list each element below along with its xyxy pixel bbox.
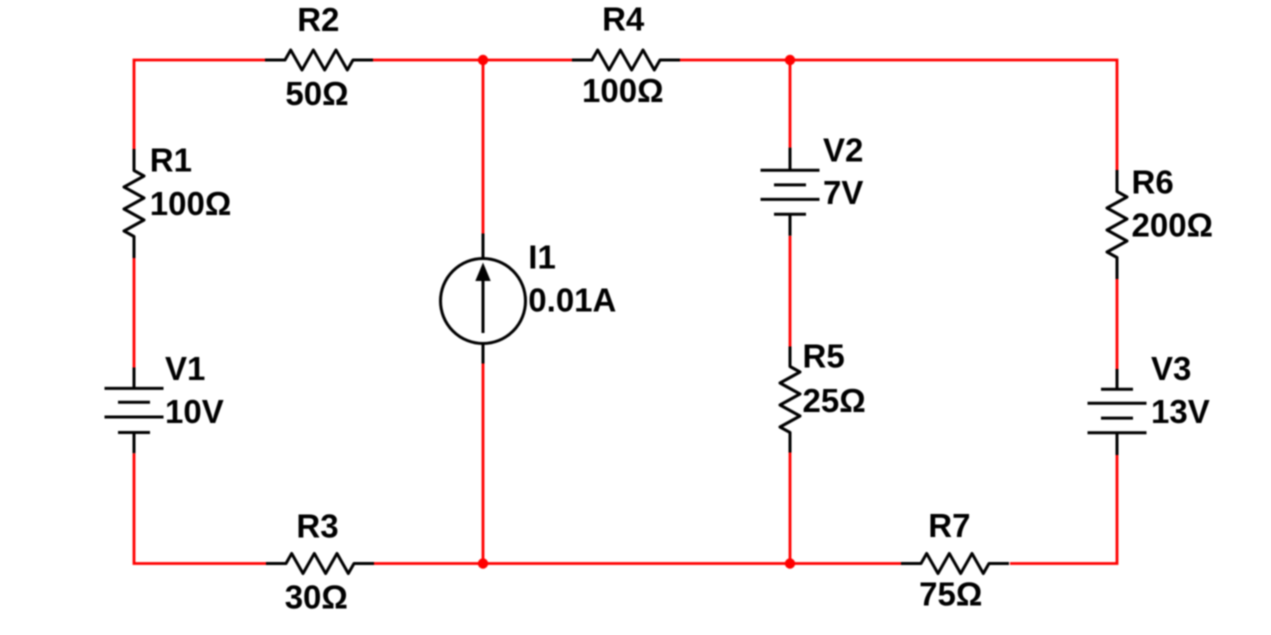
svg-text:R5: R5: [803, 338, 845, 375]
svg-text:100Ω: 100Ω: [582, 72, 664, 109]
svg-text:7V: 7V: [823, 174, 863, 211]
svg-text:R4: R4: [602, 1, 645, 38]
svg-text:25Ω: 25Ω: [803, 382, 866, 419]
svg-text:0.01A: 0.01A: [528, 282, 616, 319]
svg-text:30Ω: 30Ω: [285, 579, 348, 616]
svg-text:10V: 10V: [165, 393, 224, 430]
svg-text:V3: V3: [1151, 350, 1191, 387]
svg-text:75Ω: 75Ω: [919, 576, 982, 613]
svg-text:V1: V1: [165, 350, 205, 387]
svg-text:V2: V2: [823, 132, 863, 169]
svg-text:R3: R3: [296, 508, 338, 545]
svg-text:I1: I1: [528, 239, 556, 276]
svg-text:R1: R1: [150, 142, 192, 179]
svg-text:R2: R2: [297, 1, 339, 38]
svg-text:13V: 13V: [1151, 393, 1210, 430]
svg-text:100Ω: 100Ω: [150, 185, 232, 222]
svg-text:200Ω: 200Ω: [1132, 207, 1214, 244]
svg-text:R7: R7: [928, 507, 970, 544]
svg-text:50Ω: 50Ω: [285, 75, 348, 112]
svg-text:R6: R6: [1132, 164, 1174, 201]
